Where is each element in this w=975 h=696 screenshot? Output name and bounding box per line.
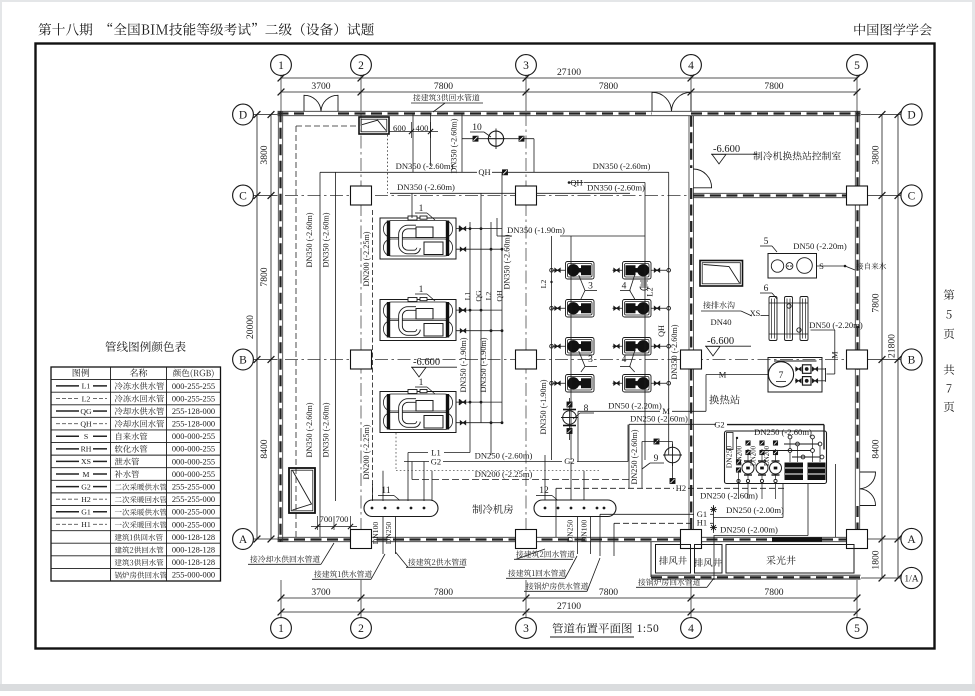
svg-text:7800: 7800: [871, 293, 882, 312]
svg-text:4: 4: [622, 282, 627, 292]
pump 3-4: [566, 375, 595, 393]
viewport edge right: [972, 0, 975, 691]
grid bubble 5 top: [847, 55, 868, 76]
svg-text:7800: 7800: [434, 587, 453, 598]
svg-text:7800: 7800: [259, 267, 270, 286]
manifold 12 stubs: [544, 455, 546, 500]
riser item10 drop: [533, 139, 535, 173]
light well label: [766, 556, 795, 565]
leader build2 supply: [408, 558, 466, 565]
svg-text:9: 9: [654, 454, 659, 464]
svg-text:A: A: [239, 534, 248, 546]
svg-text:000-255-255: 000-255-255: [172, 394, 215, 403]
device 7 box: [768, 358, 822, 393]
svg-text:21800: 21800: [887, 334, 898, 358]
svg-text:XS: XS: [81, 457, 91, 466]
svg-text:10: 10: [472, 123, 482, 133]
svg-text:QH: QH: [478, 167, 490, 177]
svg-text:H1: H1: [81, 520, 91, 529]
wall top exterior: [278, 110, 861, 112]
svg-text:1: 1: [419, 204, 424, 214]
grid bubble 4 bottom: [681, 618, 702, 639]
svg-text:L2: L2: [82, 394, 91, 403]
boiler left valves: [736, 460, 740, 464]
pump 4-1: [623, 262, 652, 280]
svg-text:8: 8: [584, 404, 589, 414]
light well box: [726, 545, 854, 574]
pipe L1 bottom: [408, 452, 428, 454]
riser mid col: [496, 218, 498, 236]
svg-text:L2: L2: [646, 287, 655, 296]
svg-text:000-255-255: 000-255-255: [172, 382, 215, 391]
device 5 pipe S: [817, 265, 846, 267]
label drain: [703, 301, 735, 308]
grid bubble 5 bottom: [847, 618, 868, 639]
svg-text:DN350 (-2.60m): DN350 (-2.60m): [397, 182, 455, 192]
svg-text:D: D: [239, 109, 247, 121]
grid centerline B: [285, 359, 855, 361]
svg-text:000-128-128: 000-128-128: [172, 545, 215, 554]
svg-text:000-128-128: 000-128-128: [172, 558, 215, 567]
svg-text:B: B: [239, 354, 247, 366]
svg-text:1/A: 1/A: [904, 575, 918, 585]
svg-text:DN350 (-2.60m): DN350 (-2.60m): [396, 161, 454, 171]
legend header: [73, 369, 90, 377]
svg-text:DN200: DN200: [751, 445, 758, 466]
pipe drop at 412: [411, 193, 413, 218]
svg-text:5: 5: [764, 237, 769, 247]
pump 4-4: [623, 375, 652, 393]
pipe build3 dashed v: [295, 126, 297, 537]
grid bubble 2 bottom: [351, 618, 372, 639]
svg-text:7800: 7800: [599, 587, 618, 598]
svg-text:000-000-255: 000-000-255: [172, 432, 215, 441]
instrument symbol: [640, 280, 648, 282]
device 8: [569, 398, 571, 440]
svg-text:DN350 (-2.60m): DN350 (-2.60m): [322, 402, 331, 457]
svg-text:6: 6: [764, 284, 769, 294]
pump stubs and valves: [552, 269, 566, 271]
svg-text:QH: QH: [80, 419, 92, 428]
door top-left double: [304, 95, 321, 111]
pipe boiler right drop: [835, 464, 837, 537]
device 10 circle: [488, 131, 503, 146]
boiler group G2 feed: [727, 424, 824, 426]
door partition: [693, 169, 711, 188]
leader build1 supply: [314, 570, 372, 577]
svg-text:700: 700: [336, 514, 349, 524]
page title right: [854, 23, 931, 35]
grid bubble 3 top: [516, 55, 537, 76]
manifold 11 drops: [382, 517, 384, 555]
pipe item10 line: [462, 138, 534, 140]
riser QG: [480, 193, 482, 423]
grid bubble C right: [901, 185, 922, 206]
svg-text:4: 4: [622, 355, 627, 365]
leader boiler supply: [526, 582, 588, 589]
exhaust well 2 label: [694, 558, 722, 567]
svg-text:DN100: DN100: [580, 520, 589, 543]
pipe dn250 m: [629, 423, 716, 425]
svg-text:L2: L2: [484, 292, 493, 301]
legend rows: [56, 385, 79, 387]
svg-text:27100: 27100: [557, 601, 581, 612]
svg-text:QG: QG: [474, 290, 483, 302]
pipe star riser: [713, 505, 715, 533]
svg-text:D: D: [907, 109, 915, 121]
pipe QH mid: [569, 182, 583, 184]
leader boiler return: [638, 578, 700, 585]
riser left b: [335, 172, 337, 501]
exhaust well 1 label: [659, 556, 687, 565]
device 9: [665, 447, 681, 463]
svg-text:DN200: DN200: [764, 445, 771, 466]
svg-text:S: S: [84, 432, 88, 441]
pump 4-3: [623, 338, 652, 356]
svg-text:1: 1: [278, 60, 284, 72]
svg-text:DN50 (-2.20m): DN50 (-2.20m): [793, 241, 847, 251]
svg-text:DN350 (-2.60m): DN350 (-2.60m): [503, 234, 512, 289]
svg-text:000-000-255: 000-000-255: [172, 457, 215, 466]
right dim ticks and leaders: [861, 114, 900, 116]
right dim line segments: [881, 115, 883, 579]
pipe trench dotted: [396, 470, 600, 472]
louver hx room: [700, 261, 743, 287]
wall control room south: [693, 192, 855, 194]
grid centerline 3: [525, 113, 527, 537]
wall right exterior: [854, 111, 856, 541]
riser QH2: [501, 172, 503, 423]
svg-text:L1: L1: [463, 292, 472, 301]
svg-text:DN40: DN40: [710, 317, 731, 327]
svg-text:B: B: [908, 354, 916, 366]
svg-text:12: 12: [539, 486, 549, 496]
grid bubble 3 bottom: [516, 618, 537, 639]
svg-text:3800: 3800: [871, 145, 882, 164]
svg-text:7: 7: [779, 371, 784, 381]
svg-text:DN350 (-2.60m): DN350 (-2.60m): [593, 161, 651, 171]
svg-text:DN350 (-2.60m): DN350 (-2.60m): [670, 324, 679, 379]
grid bubble A right: [901, 528, 922, 549]
pipe G2 bottom: [404, 461, 429, 463]
svg-text:4: 4: [688, 623, 694, 635]
svg-text:7800: 7800: [764, 81, 783, 92]
pump 4-2: [623, 300, 652, 318]
left dim ticks and leaders: [253, 114, 277, 116]
svg-text:3700: 3700: [311, 587, 330, 598]
right dim line overall: [897, 115, 899, 579]
svg-text:DN250 (-2.60m): DN250 (-2.60m): [754, 427, 812, 437]
pipe G1: [600, 513, 694, 515]
pipe dn250 200a: [714, 517, 784, 519]
pipe H2: [556, 487, 674, 489]
grid bubble 2 top: [351, 55, 372, 76]
left dim line segments: [270, 115, 272, 540]
device 7 pumps: [803, 365, 812, 374]
room label control: [753, 151, 840, 160]
label build3 top: [413, 94, 479, 101]
svg-text:-6.600: -6.600: [413, 357, 440, 368]
svg-text:DN250: DN250: [725, 446, 734, 469]
boiler group left col: [727, 433, 734, 450]
top dim line overall: [281, 77, 857, 79]
grid bubble 1 top: [271, 55, 292, 76]
pump 3-1: [566, 262, 595, 280]
svg-text:DN250 (-2.00m): DN250 (-2.00m): [726, 505, 784, 515]
svg-text:DN350 (-2.60m): DN350 (-2.60m): [305, 402, 314, 457]
grid bubble A left: [233, 529, 254, 550]
pipe dn350 190: [497, 235, 512, 237]
svg-text:255-255-000: 255-255-000: [172, 482, 215, 491]
manifold 12 drops: [577, 517, 579, 555]
svg-text:8400: 8400: [871, 439, 882, 458]
svg-text:H2: H2: [676, 483, 686, 493]
top connection risers: [412, 113, 414, 172]
room label hx: [709, 395, 739, 405]
svg-text:1: 1: [419, 378, 424, 388]
grid bubble 1/A right: [901, 567, 922, 588]
svg-text:DN350 (-1.90m): DN350 (-1.90m): [479, 337, 488, 392]
svg-text:DN100: DN100: [371, 522, 380, 545]
manifold 12 nodes: [544, 507, 547, 510]
svg-text:M: M: [83, 470, 90, 479]
pipe QH upper: [320, 171, 477, 173]
legend table grid: [51, 367, 221, 581]
top dim line segments: [361, 91, 857, 93]
page number column: [944, 289, 955, 300]
svg-text:5: 5: [854, 623, 860, 635]
svg-text:3: 3: [588, 355, 593, 365]
svg-text:255-128-000: 255-128-000: [172, 420, 215, 429]
svg-text:DN200 (-2.25m): DN200 (-2.25m): [362, 231, 371, 286]
svg-text:700: 700: [320, 514, 333, 524]
star valve H1: [710, 527, 717, 529]
pipe build3 dashed h: [296, 125, 359, 127]
boiler group nodes: [788, 435, 792, 439]
grid bubble 1 bottom: [271, 618, 292, 639]
louver top wall: [359, 117, 389, 134]
pipe dn250 200b: [714, 535, 809, 537]
leader build1 return: [508, 569, 566, 576]
svg-text:2: 2: [358, 60, 364, 72]
wall left exterior: [277, 111, 279, 541]
room label machine: [472, 504, 513, 514]
device 5 circles: [771, 260, 783, 272]
wall bottom window: [772, 537, 822, 541]
svg-text:3800: 3800: [259, 145, 270, 164]
label tap water: [856, 263, 886, 270]
svg-text:QH: QH: [570, 177, 582, 187]
svg-text:3700: 3700: [311, 81, 330, 92]
svg-text:XS: XS: [750, 309, 761, 318]
viewport edge bottom: [0, 684, 975, 691]
grid bubble B right: [901, 349, 922, 370]
svg-text:DN350 (-2.60m): DN350 (-2.60m): [305, 212, 314, 267]
pipe M dn50: [578, 410, 660, 412]
riser pump qh: [668, 172, 670, 455]
device 5 box: [768, 254, 817, 279]
chiller 1: [380, 218, 456, 259]
riser pump col1: [570, 236, 572, 460]
boiler group box: [725, 431, 827, 484]
manifold 12: [534, 500, 616, 517]
svg-text:QG: QG: [80, 407, 92, 416]
svg-text:1: 1: [419, 285, 424, 295]
leader build2 return: [516, 550, 574, 557]
grid bubble D left: [233, 104, 254, 125]
boiler black unit 1: [785, 463, 804, 481]
riser pump l2: [644, 183, 646, 461]
chiller 3: [380, 392, 456, 433]
svg-text:RH: RH: [81, 445, 92, 454]
riser L2: [490, 222, 492, 455]
svg-text:G2: G2: [431, 457, 441, 467]
svg-text:DN200 (-2.25m): DN200 (-2.25m): [362, 424, 371, 479]
svg-text:DN250: DN250: [566, 520, 575, 543]
chiller stubs: [456, 228, 502, 230]
riser pump col1b: [551, 236, 553, 460]
svg-text:DN350 (-1.90m): DN350 (-1.90m): [539, 379, 548, 434]
door right double: [860, 472, 876, 489]
grid bubble 4 top: [681, 55, 702, 76]
svg-text:3: 3: [523, 60, 529, 72]
svg-text:7800: 7800: [599, 81, 618, 92]
svg-text:H2: H2: [81, 495, 91, 504]
door top-mid double: [652, 92, 672, 111]
svg-text:8400: 8400: [259, 439, 270, 458]
svg-text:G2: G2: [81, 482, 91, 491]
svg-text:L2: L2: [539, 280, 548, 289]
svg-text:000-255-000: 000-255-000: [172, 508, 215, 517]
pump 3-2: [566, 300, 595, 318]
device 7 M line: [706, 374, 768, 376]
svg-text:3: 3: [523, 623, 529, 635]
pipe QG lower: [390, 192, 516, 194]
svg-text:DN250 (-2.00m): DN250 (-2.00m): [720, 525, 778, 535]
svg-text:S: S: [819, 261, 824, 271]
riser left c: [372, 210, 374, 501]
svg-text:7800: 7800: [764, 587, 783, 598]
viewport edge top: [0, 0, 975, 2]
svg-text:1800: 1800: [871, 550, 882, 569]
svg-text:000-000-255: 000-000-255: [172, 470, 215, 479]
device 7 circle: [768, 362, 793, 387]
svg-text:G1: G1: [81, 508, 91, 517]
bottom dim line segments: [281, 597, 857, 599]
leader cooling water: [250, 555, 320, 562]
viewport edge left: [0, 0, 2, 691]
svg-text:A: A: [907, 534, 916, 546]
riser left a: [319, 172, 321, 537]
device 6 tank: [769, 297, 777, 341]
well outline: [650, 542, 652, 577]
svg-text:2: 2: [358, 623, 364, 635]
svg-text:-6.600: -6.600: [713, 144, 740, 155]
left dim line overall: [256, 115, 258, 540]
svg-text:DN350 (-2.60m): DN350 (-2.60m): [587, 183, 645, 193]
columns: [351, 186, 372, 205]
pump 3-3: [566, 338, 595, 356]
svg-text:20000: 20000: [245, 315, 256, 339]
svg-text:DN350 (-1.90m): DN350 (-1.90m): [507, 225, 565, 235]
star valve G1: [710, 509, 717, 511]
device 6 pipe right: [811, 329, 835, 331]
svg-text:3: 3: [588, 282, 593, 292]
pipe H1: [614, 522, 694, 524]
exhaust well 1 box: [656, 545, 691, 574]
svg-text:M: M: [831, 351, 840, 358]
manifold 11 nodes: [371, 507, 374, 510]
svg-text:DN250 (-2.60m): DN250 (-2.60m): [475, 451, 533, 461]
svg-text:H1: H1: [697, 518, 707, 528]
bottom dim ticks and extensions: [280, 580, 282, 618]
top dim ticks and extensions: [280, 76, 282, 111]
svg-text:255-255-000: 255-255-000: [172, 495, 215, 504]
svg-text:1: 1: [278, 623, 284, 635]
manifold 11 stubs: [382, 471, 384, 501]
grid bubble C left: [233, 185, 254, 206]
sump left wall: [289, 468, 315, 513]
bottom dim line overall: [281, 611, 857, 613]
svg-text:27100: 27100: [557, 67, 581, 78]
riser L1: [469, 222, 471, 453]
svg-text:DN350 (-1.90m): DN350 (-1.90m): [459, 337, 468, 392]
svg-text:DN250 (-2.60m): DN250 (-2.60m): [630, 429, 639, 484]
svg-text:255-128-000: 255-128-000: [172, 407, 215, 416]
grid centerline C: [285, 195, 688, 197]
page title left: [39, 23, 374, 36]
svg-text:000-000-255: 000-000-255: [172, 445, 215, 454]
svg-text:255-000-000: 255-000-000: [172, 571, 215, 580]
riser DN350 topwall: [461, 113, 463, 172]
svg-text:1:50: 1:50: [637, 623, 660, 635]
grid bubble B left: [233, 349, 254, 370]
svg-text:G2: G2: [564, 456, 574, 466]
pipe boiler drop: [713, 536, 715, 581]
boiler pumps: [742, 462, 754, 474]
svg-text:QH: QH: [657, 325, 666, 337]
svg-text:7800: 7800: [434, 81, 453, 92]
grid bubble D right: [901, 104, 922, 125]
grid centerline 2: [360, 113, 362, 537]
svg-text:DN50 (-2.20m): DN50 (-2.20m): [809, 320, 863, 330]
manifold 11: [364, 500, 438, 517]
svg-text:QH: QH: [495, 290, 504, 302]
wall partition grid4: [688, 116, 690, 538]
svg-text:DN50 (-2.20m): DN50 (-2.20m): [608, 401, 662, 411]
svg-text:4: 4: [688, 60, 694, 72]
exhaust well 2 box: [695, 545, 723, 574]
svg-text:M: M: [719, 370, 727, 380]
svg-text:DN250 (-2.60m): DN250 (-2.60m): [700, 491, 758, 501]
svg-text:000-128-128: 000-128-128: [172, 533, 215, 542]
valve item10 left: [473, 136, 478, 141]
legend title: [105, 341, 185, 352]
svg-text:C: C: [239, 190, 247, 202]
svg-text:L1: L1: [82, 382, 91, 391]
svg-text:5: 5: [854, 60, 860, 72]
valve item10 right: [519, 136, 524, 141]
drawing title: [552, 623, 631, 634]
wall bottom exterior: [278, 536, 861, 538]
svg-text:-6.600: -6.600: [707, 336, 734, 347]
svg-text:000-255-000: 000-255-000: [172, 520, 215, 529]
svg-text:DN350 (-2.60m): DN350 (-2.60m): [322, 212, 331, 267]
well dash bottom: [651, 576, 861, 578]
chiller 2: [380, 300, 456, 341]
boiler black unit 2: [808, 463, 826, 481]
svg-text:DN250: DN250: [384, 522, 393, 545]
